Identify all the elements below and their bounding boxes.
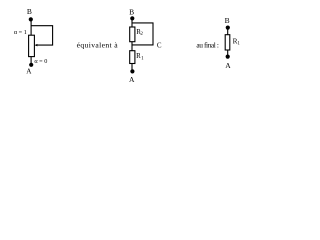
svg-text:au final :: au final : (196, 41, 218, 50)
svg-text:B: B (27, 7, 32, 16)
svg-text:B: B (225, 16, 230, 25)
svg-text:1: 1 (141, 56, 144, 61)
svg-text:B: B (129, 7, 134, 16)
svg-text:α = 0: α = 0 (34, 58, 47, 65)
svg-text:A: A (129, 75, 135, 84)
svg-text:A: A (225, 61, 231, 70)
svg-text:A: A (26, 68, 32, 76)
svg-text:équivalent à: équivalent à (77, 40, 119, 49)
svg-text:1: 1 (237, 42, 240, 47)
svg-text:α = 1: α = 1 (14, 29, 27, 36)
svg-text:C: C (157, 41, 162, 49)
svg-text:2: 2 (140, 32, 143, 37)
